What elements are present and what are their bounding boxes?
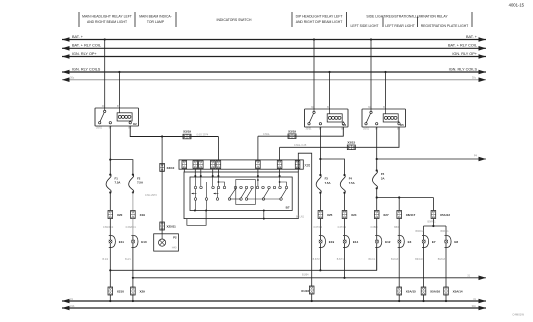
connector X1/16 xyxy=(309,286,314,294)
ground bus wire 2 xyxy=(62,304,486,311)
bus wire BAT. + RLY COIL xyxy=(62,44,486,51)
ground bus wire 1 xyxy=(62,297,486,304)
wire relay K2 pin30 to BAT+ bus xyxy=(104,40,106,109)
svg-text:B9/FC2: B9/FC2 xyxy=(416,230,425,233)
bus wire IGN. RLY OP+ xyxy=(62,52,486,59)
wire K5 pin87 down xyxy=(376,127,378,171)
strip connector c5 xyxy=(277,161,282,169)
connector X210 xyxy=(108,287,113,295)
lamp E12 side light xyxy=(375,236,382,248)
wire X5A/14 to ground bus xyxy=(445,295,447,301)
lamp E8 plate light xyxy=(445,236,452,248)
wire relay K4 coil to IGN RLY COILS bus xyxy=(329,72,331,109)
svg-text:B1/C1: B1/C1 xyxy=(369,258,376,261)
wire F3 to X25 xyxy=(319,193,321,211)
connector X20 xyxy=(108,211,113,219)
connector X5A/14 xyxy=(444,287,449,295)
strip connector c3a xyxy=(210,161,215,169)
svg-text:BAT. +: BAT. + xyxy=(72,35,84,39)
wire c1 into housing edge xyxy=(183,169,185,172)
wire lamp E19 to line A xyxy=(319,248,321,271)
svg-text:X29: X29 xyxy=(140,289,146,293)
connector X3/19 left xyxy=(183,134,191,139)
svg-text:E3: E3 xyxy=(408,240,412,244)
svg-text:H40: H40 xyxy=(172,246,177,250)
svg-text:E14: E14 xyxy=(353,240,359,244)
indicator lamp P2 box xyxy=(154,234,179,251)
strip connector c1 xyxy=(182,161,187,169)
svg-text:4001-15: 4001-15 xyxy=(509,3,525,8)
svg-text:LEFT SIDE LIGHT: LEFT SIDE LIGHT xyxy=(350,24,378,28)
wire K5 to off-page arrow xyxy=(377,158,486,160)
connector X8/417 xyxy=(397,211,402,219)
bus wire IGN. RLY COILS xyxy=(62,67,486,74)
connector X29 xyxy=(131,287,136,295)
connector X24 xyxy=(342,211,347,219)
svg-text:X5A/14: X5A/14 xyxy=(453,289,463,293)
svg-text:7.5A: 7.5A xyxy=(349,181,355,185)
switch B7 bottom pins xyxy=(194,210,196,212)
wire X25 to lamp E19 xyxy=(319,219,321,236)
svg-text:0.6T/C1: 0.6T/C1 xyxy=(338,226,347,229)
wire relay K5 pin30 to BAT+ bus xyxy=(370,40,372,110)
switch inner box B7 xyxy=(190,177,292,211)
relay K5 side light relay xyxy=(362,109,406,127)
svg-text:P4: P4 xyxy=(474,154,478,158)
svg-text:X8/417: X8/417 xyxy=(406,213,416,217)
wire strip to switch xyxy=(212,169,214,176)
svg-text:B.6/T2: B.6/T2 xyxy=(313,258,321,261)
svg-text:INDICATORS SWITCH: INDICATORS SWITCH xyxy=(217,18,252,22)
strip connector c2b xyxy=(199,161,204,169)
wire F5 to junction xyxy=(376,188,378,210)
ground collector line B xyxy=(133,277,486,279)
wire X5A/15 to ground bus xyxy=(398,295,400,301)
wire strip to switch xyxy=(200,169,202,176)
svg-text:30/51: 30/51 xyxy=(306,128,313,131)
svg-text:0.6T/C2: 0.6T/C2 xyxy=(314,226,323,229)
svg-text:31b: 31b xyxy=(472,304,477,308)
wire relay K4 pin30 to BAT+ bus xyxy=(313,40,315,110)
svg-text:B1/B4: B1/B4 xyxy=(302,274,309,277)
strip connector c2a xyxy=(193,161,198,169)
svg-text:X19: X19 xyxy=(140,213,146,217)
svg-text:SIDE LIGHT/REGISTRATION/ILLUMI: SIDE LIGHT/REGISTRATION/ILLUMINATION REL… xyxy=(366,15,448,19)
svg-text:K2: K2 xyxy=(133,122,137,126)
fuse F3 7.5A xyxy=(319,174,321,176)
svg-text:7.5A: 7.5A xyxy=(137,181,143,185)
svg-text:0.6N/FC2: 0.6N/FC2 xyxy=(103,226,114,229)
svg-text:B9/FC1: B9/FC1 xyxy=(441,230,450,233)
svg-text:IGN. RLY COILS: IGN. RLY COILS xyxy=(72,67,101,71)
lamp E3 rear light xyxy=(398,236,405,248)
strip connector c6 X26 xyxy=(295,161,300,169)
header separator bar 4 xyxy=(291,12,293,27)
svg-text:0.6GL 0.25: 0.6GL 0.25 xyxy=(294,144,307,147)
connector X5A/12 xyxy=(431,211,436,219)
wire F4 to X24 xyxy=(344,193,346,211)
svg-text:IGN. RLY OP+: IGN. RLY OP+ xyxy=(452,52,477,56)
svg-text:B.2/1: B.2/1 xyxy=(125,258,131,261)
strip connector c4 xyxy=(256,161,261,169)
svg-text:E10: E10 xyxy=(141,240,147,244)
svg-text:30/51: 30/51 xyxy=(363,128,370,131)
header separator bar 2 xyxy=(134,12,136,27)
wire F1 to X20 xyxy=(109,193,111,211)
svg-text:K5: K5 xyxy=(400,123,404,127)
wire F2 to X19 xyxy=(132,193,134,211)
wire branch to F2 xyxy=(110,160,133,175)
svg-text:X25/11: X25/11 xyxy=(167,224,177,228)
wire X1/16 to ground bus xyxy=(311,294,313,301)
svg-text:30c: 30c xyxy=(70,76,75,80)
svg-text:LEFT REAR LIGHT: LEFT REAR LIGHT xyxy=(385,24,415,28)
wire X210 to ground bus xyxy=(109,295,111,301)
svg-text:K4: K4 xyxy=(343,123,347,127)
svg-text:X3/19: X3/19 xyxy=(288,129,296,133)
svg-text:B9/FC1: B9/FC1 xyxy=(428,221,437,224)
svg-text:3A: 3A xyxy=(381,177,385,181)
svg-text:P2: P2 xyxy=(173,235,177,239)
wire strip to switch xyxy=(217,169,219,176)
wire X8/417 to lamp E3 xyxy=(398,219,400,236)
svg-text:AND RIGHT BEAM LIGHT: AND RIGHT BEAM LIGHT xyxy=(87,20,127,24)
wire lamp E7 to X5A/16 xyxy=(423,248,425,288)
svg-text:MAIN HEADLIGHT RELAY LEFT: MAIN HEADLIGHT RELAY LEFT xyxy=(82,15,132,19)
svg-text:X26: X26 xyxy=(305,164,311,168)
bus wire screened (gray) xyxy=(62,76,486,82)
wire lamp E3 to X5A/15 xyxy=(398,248,400,288)
svg-text:E12: E12 xyxy=(385,240,391,244)
header separator bar 7 xyxy=(417,17,419,28)
wire strip to switch xyxy=(194,169,196,176)
svg-text:DIP HEADLIGHT RELAY LEFT: DIP HEADLIGHT RELAY LEFT xyxy=(296,15,343,19)
fuse F1 7.5A xyxy=(109,174,111,176)
wire X29 to ground bus xyxy=(132,295,134,301)
svg-text:E7: E7 xyxy=(432,240,436,244)
connector X19 xyxy=(131,211,136,219)
svg-text:7.5A: 7.5A xyxy=(115,181,121,185)
svg-text:X27: X27 xyxy=(383,213,389,217)
lamp E7 plate light xyxy=(422,236,429,248)
svg-text:B7: B7 xyxy=(286,206,290,210)
header separator bar 8 xyxy=(471,12,473,27)
wire lamp E8 to X5A/14 xyxy=(445,248,447,288)
svg-text:X5A/16: X5A/16 xyxy=(430,289,440,293)
svg-text:X210: X210 xyxy=(117,289,124,293)
svg-text:E11: E11 xyxy=(119,240,125,244)
lamp E19 left dip beam xyxy=(319,236,326,248)
lamp E10 right main beam xyxy=(131,236,138,248)
svg-text:X5A/15: X5A/15 xyxy=(406,289,416,293)
wire branch to X8/417 and X5A/12 xyxy=(377,197,434,199)
svg-text:X3/10: X3/10 xyxy=(167,166,175,170)
switch outer housing box xyxy=(184,172,298,219)
connector X25/11 xyxy=(160,222,165,230)
wire X5A/16 to ground bus xyxy=(423,295,425,301)
wire X20 to lamp E11 xyxy=(109,219,111,236)
lamp E14 right dip beam xyxy=(343,236,350,248)
wire X27 to lamp E12 xyxy=(376,219,378,236)
connector X3/15 xyxy=(347,145,355,150)
svg-text:X25: X25 xyxy=(327,213,333,217)
connector X5A/15 xyxy=(397,287,402,295)
wire lamp E10 to X29 xyxy=(132,248,134,288)
relay K2 main headlight relay xyxy=(95,108,139,126)
wire X5A/12 split to E7 E8 xyxy=(432,219,434,227)
connector X5A/16 xyxy=(421,287,426,295)
svg-text:X5A/12: X5A/12 xyxy=(440,213,450,217)
svg-text:31b: 31b xyxy=(70,304,75,308)
lamp E11 left main beam xyxy=(109,236,116,248)
wire K2 coil return to indicators switch xyxy=(130,126,218,137)
connector X25 xyxy=(318,211,323,219)
svg-text:IGN. RLY OP+: IGN. RLY OP+ xyxy=(72,52,97,56)
svg-text:B6 LN1: B6 LN1 xyxy=(296,216,305,219)
svg-text:E19: E19 xyxy=(329,240,335,244)
svg-text:BAT. + RLY COIL: BAT. + RLY COIL xyxy=(448,44,477,48)
wire X19 to lamp E10 xyxy=(132,219,134,236)
svg-text:AND RIGHT DIP BEAM LIGHT: AND RIGHT DIP BEAM LIGHT xyxy=(296,20,343,24)
svg-text:TOR LAMP: TOR LAMP xyxy=(147,20,165,24)
svg-text:REGISTRATION PLATE LIGHT: REGISTRATION PLATE LIGHT xyxy=(421,24,469,28)
header separator bar 1 xyxy=(78,12,80,27)
wire lamp E14 to line B xyxy=(344,248,346,278)
connector X27 xyxy=(374,211,379,219)
wire lamp E11 to X210 xyxy=(109,248,111,288)
svg-text:X24: X24 xyxy=(351,213,357,217)
switch connector strip box xyxy=(179,160,303,169)
wire switch ground staple xyxy=(298,153,311,286)
connector X3/19 right xyxy=(288,134,296,139)
relay K4 dip headlight relay xyxy=(305,109,349,127)
svg-text:7.5A: 7.5A xyxy=(325,181,331,185)
svg-text:B9/C2I: B9/C2I xyxy=(438,258,446,261)
fuse F4 7.5A xyxy=(343,174,345,176)
wire K5 coil return to indicators switch xyxy=(280,127,399,147)
wire strip to switch xyxy=(279,169,281,176)
fuse F5 3A xyxy=(376,169,378,171)
wire K4 coil return to indicators switch xyxy=(258,127,343,136)
svg-text:30c: 30c xyxy=(472,76,477,80)
svg-text:B.6/T1: B.6/T1 xyxy=(337,258,345,261)
header separator bar 5 xyxy=(346,12,348,27)
svg-text:30/51: 30/51 xyxy=(96,127,103,130)
connector X3/10 xyxy=(160,163,165,171)
fuse F2 7.5A xyxy=(132,174,134,176)
switch frame ground loop xyxy=(187,211,206,226)
strip connector c3b xyxy=(216,161,221,169)
header separator bar 3 xyxy=(175,12,177,27)
bus wire BAT. + xyxy=(62,35,486,42)
wire K4 pin87 down xyxy=(319,127,321,175)
wire K2 pin87 down xyxy=(109,126,111,175)
indicator switch contacts B7 xyxy=(194,186,197,189)
svg-text:B1/C2I: B1/C2I xyxy=(391,258,399,261)
svg-text:X3/15: X3/15 xyxy=(347,140,355,144)
svg-text:BAT. + RLY COIL: BAT. + RLY COIL xyxy=(72,44,101,48)
wire relay K5 coil to IGN RLY COILS bus xyxy=(385,72,387,109)
wire lamp E12 to line A xyxy=(376,248,378,271)
svg-text:0.6N/FC1: 0.6N/FC1 xyxy=(126,226,137,229)
svg-text:E8: E8 xyxy=(454,240,458,244)
wire strip to switch xyxy=(257,169,259,176)
svg-text:B9/C2I: B9/C2I xyxy=(415,258,423,261)
svg-text:0.6G 2973: 0.6G 2973 xyxy=(145,194,157,197)
ground collector line A xyxy=(110,248,376,270)
svg-text:0.6GL: 0.6GL xyxy=(263,133,270,136)
svg-text:MAIN BEAM INDICA-: MAIN BEAM INDICA- xyxy=(139,15,172,19)
svg-text:BAT. +: BAT. + xyxy=(466,35,478,39)
svg-text:X20: X20 xyxy=(117,213,123,217)
svg-text:C4M01W: C4M01W xyxy=(512,313,524,317)
svg-text:X1/16: X1/16 xyxy=(301,289,309,293)
wire relay K2 coil to IGN RLY COILS bus xyxy=(118,72,120,108)
svg-text:IGN. RLY COILS: IGN. RLY COILS xyxy=(449,67,478,71)
svg-text:X3/19: X3/19 xyxy=(183,130,191,134)
header separator bar 6 xyxy=(382,17,384,28)
svg-text:0.6G 2974: 0.6G 2974 xyxy=(197,133,209,136)
svg-text:B.2/2: B.2/2 xyxy=(103,258,109,261)
wire to main beam indicator lamp xyxy=(161,137,163,234)
wire branch to F4 xyxy=(320,159,344,175)
wire X24 to lamp E14 xyxy=(344,219,346,236)
